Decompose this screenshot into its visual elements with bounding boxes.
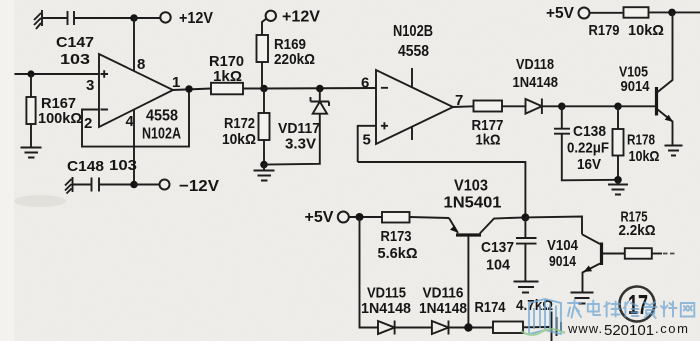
svg-text:C148: C148 [67, 158, 104, 175]
svg-text:104: 104 [486, 257, 511, 274]
svg-text:VD118: VD118 [516, 56, 554, 73]
node +5V middle [356, 213, 364, 221]
node C138/R178 ground [614, 176, 622, 184]
terminal +12V (second) [266, 11, 276, 21]
transistor V103 [449, 217, 525, 235]
capacitor C137 [516, 217, 537, 281]
resistor R178 [613, 106, 624, 180]
svg-text:3.3V: 3.3V [285, 136, 316, 153]
label R174 [475, 297, 554, 316]
diode VD115 [378, 321, 432, 335]
label R178 [627, 132, 660, 166]
label VD116 [419, 285, 467, 318]
label R172 [222, 115, 256, 148]
wire +5V down to bottom rail [360, 217, 379, 328]
wire pin 2 feedback loop [82, 89, 189, 147]
node VD117 [316, 85, 324, 93]
wire +5V to R179 [590, 12, 624, 14]
op-amp input signs [101, 70, 109, 109]
node A (C138) [558, 103, 566, 111]
svg-text:+5V: +5V [546, 5, 574, 22]
resistor R174 [493, 322, 550, 334]
svg-text:0.22μF: 0.22μF [567, 140, 609, 157]
svg-text:C147: C147 [56, 34, 94, 51]
label R179 [589, 22, 665, 39]
ground under R172 [254, 165, 275, 181]
capacitor C138 [554, 106, 618, 180]
wire node to V104 collector [525, 217, 582, 235]
wire output pin 1 [173, 89, 211, 91]
label VD115 [361, 285, 411, 318]
zener diode VD117 [264, 89, 329, 165]
wire to +12V terminal [134, 17, 160, 19]
terminal +5V (top right) [579, 8, 590, 19]
svg-text:R174: R174 [475, 299, 507, 316]
svg-text:1: 1 [172, 74, 180, 91]
label R170 [209, 53, 244, 85]
label V105 [619, 64, 650, 96]
node C137 [521, 213, 529, 221]
resistor R169 [257, 19, 269, 89]
wire pin 5 stub [358, 126, 376, 162]
svg-text:4558: 4558 [398, 43, 429, 60]
wire output pin 7 [453, 105, 474, 108]
svg-text:9014: 9014 [549, 253, 577, 270]
ground under R178 [608, 180, 628, 195]
node -12V rail [130, 181, 138, 189]
resistor R167 [26, 74, 35, 147]
label C147 [56, 34, 94, 68]
label R175 [619, 209, 656, 240]
resistor R179 [624, 7, 700, 18]
svg-text:R173: R173 [381, 228, 412, 245]
svg-text:10kΩ: 10kΩ [222, 131, 256, 148]
svg-text:3: 3 [86, 77, 94, 94]
svg-text:N102B: N102B [393, 23, 433, 40]
svg-text:VD116: VD116 [423, 285, 464, 302]
wire main rail to N102B pin 6 [264, 87, 376, 90]
label V103 [444, 178, 502, 212]
wire +5V node [349, 216, 382, 218]
svg-text:4558: 4558 [146, 108, 178, 125]
wire pin 4 to -12V [133, 110, 135, 185]
ground under V104 emitter [571, 293, 594, 304]
label VD117 [278, 120, 320, 153]
node input [27, 70, 34, 77]
svg-text:V104: V104 [547, 237, 579, 254]
svg-text:+12V: +12V [179, 10, 213, 27]
node B (R178 / V105 base) [614, 103, 622, 111]
transistor V105 [618, 12, 673, 145]
label C138 [567, 123, 609, 173]
node output N102A [185, 85, 193, 93]
svg-text:+5V: +5V [305, 209, 334, 226]
svg-text:C138: C138 [573, 123, 606, 140]
svg-text:2: 2 [84, 115, 92, 132]
svg-text:6: 6 [361, 75, 369, 92]
label R169 [274, 36, 315, 68]
svg-text:1N4148: 1N4148 [361, 300, 411, 317]
terminal -12V [160, 180, 170, 190]
svg-text:−12V: −12V [179, 178, 219, 195]
svg-text:VD115: VD115 [367, 285, 406, 302]
wire pin 8 [133, 18, 135, 71]
ground under V105 emitter [665, 146, 683, 156]
svg-text:520101: 520101 [604, 322, 654, 339]
wire node A to node B [562, 105, 618, 107]
chassis terminal of C148 [65, 177, 73, 194]
svg-text:103: 103 [109, 157, 137, 174]
transistor V104 [582, 234, 625, 292]
svg-text:V103: V103 [454, 178, 488, 195]
chassis terminal of C147 [34, 10, 42, 29]
svg-text:R172: R172 [224, 115, 255, 132]
power stubs N102B [411, 68, 413, 140]
svg-text:R178: R178 [627, 132, 655, 149]
wire V103 base [467, 237, 469, 328]
svg-text:100kΩ: 100kΩ [38, 110, 82, 127]
node R170/R169/R172 [260, 85, 268, 93]
svg-text:R179: R179 [589, 22, 620, 39]
ground under R167 [21, 148, 42, 158]
label V104 [547, 237, 579, 270]
label R173 [378, 228, 418, 262]
diode VD116 [432, 321, 493, 335]
resistor R172 [259, 89, 270, 165]
label R167 [38, 95, 82, 127]
node R179 / V105 collector [668, 9, 676, 17]
svg-text:8: 8 [137, 56, 145, 73]
watermark url [567, 321, 690, 339]
svg-text:1N4148: 1N4148 [419, 300, 467, 317]
svg-text:1kΩ: 1kΩ [213, 68, 242, 85]
svg-text:.com: .com [655, 321, 690, 336]
label C148 [67, 157, 137, 175]
terminal +12V [160, 12, 170, 22]
ground under C137 [514, 282, 539, 293]
svg-text:N102A: N102A [142, 126, 181, 143]
svg-text:5.6kΩ: 5.6kΩ [378, 245, 418, 262]
svg-text:1N4148: 1N4148 [513, 74, 559, 91]
label VD118 [513, 56, 559, 91]
capacitor C148 [73, 178, 135, 192]
label R177 [472, 117, 504, 149]
svg-text:10kΩ: 10kΩ [628, 22, 664, 39]
terminal +5V (middle) [338, 212, 349, 223]
node +12V rail [130, 14, 138, 22]
resistor R175 [625, 248, 677, 259]
watermark chinese text [568, 300, 694, 318]
wire input to pin 3 [15, 73, 100, 75]
resistor R173 [382, 212, 449, 223]
resistor R170 [211, 83, 264, 95]
capacitor C147 [42, 11, 134, 25]
svg-text:C137: C137 [481, 239, 514, 256]
op-amp input signs N102B [381, 88, 388, 130]
diode VD118 [526, 99, 562, 115]
svg-text:2.2kΩ: 2.2kΩ [619, 222, 656, 239]
svg-text:10kΩ: 10kΩ [629, 148, 660, 165]
resistor R177 [474, 101, 526, 112]
wire feedback rail to C137 node [358, 162, 526, 217]
svg-text:220kΩ: 220kΩ [274, 51, 315, 68]
node V103 base / bottom rail [464, 323, 472, 331]
svg-text:+12V: +12V [282, 9, 320, 26]
svg-text:1N5401: 1N5401 [444, 195, 502, 212]
wire to -12V terminal [134, 184, 160, 186]
svg-text:16V: 16V [577, 156, 601, 173]
svg-text:5: 5 [363, 132, 371, 149]
op-amp U N102A triangle [99, 54, 173, 127]
node R172 ground [260, 161, 268, 169]
svg-text:1kΩ: 1kΩ [476, 132, 501, 149]
svg-text:9014: 9014 [621, 78, 651, 95]
label C137 [481, 239, 514, 274]
ground (rotated) at end of R174 rail [552, 312, 562, 341]
svg-text:www.: www. [567, 321, 603, 336]
op-amp U N102B triangle [376, 70, 453, 144]
watermark book icon [521, 299, 565, 335]
svg-text:VD117: VD117 [278, 120, 320, 137]
svg-text:103: 103 [60, 51, 90, 68]
connector pin circle 17 [620, 287, 655, 322]
